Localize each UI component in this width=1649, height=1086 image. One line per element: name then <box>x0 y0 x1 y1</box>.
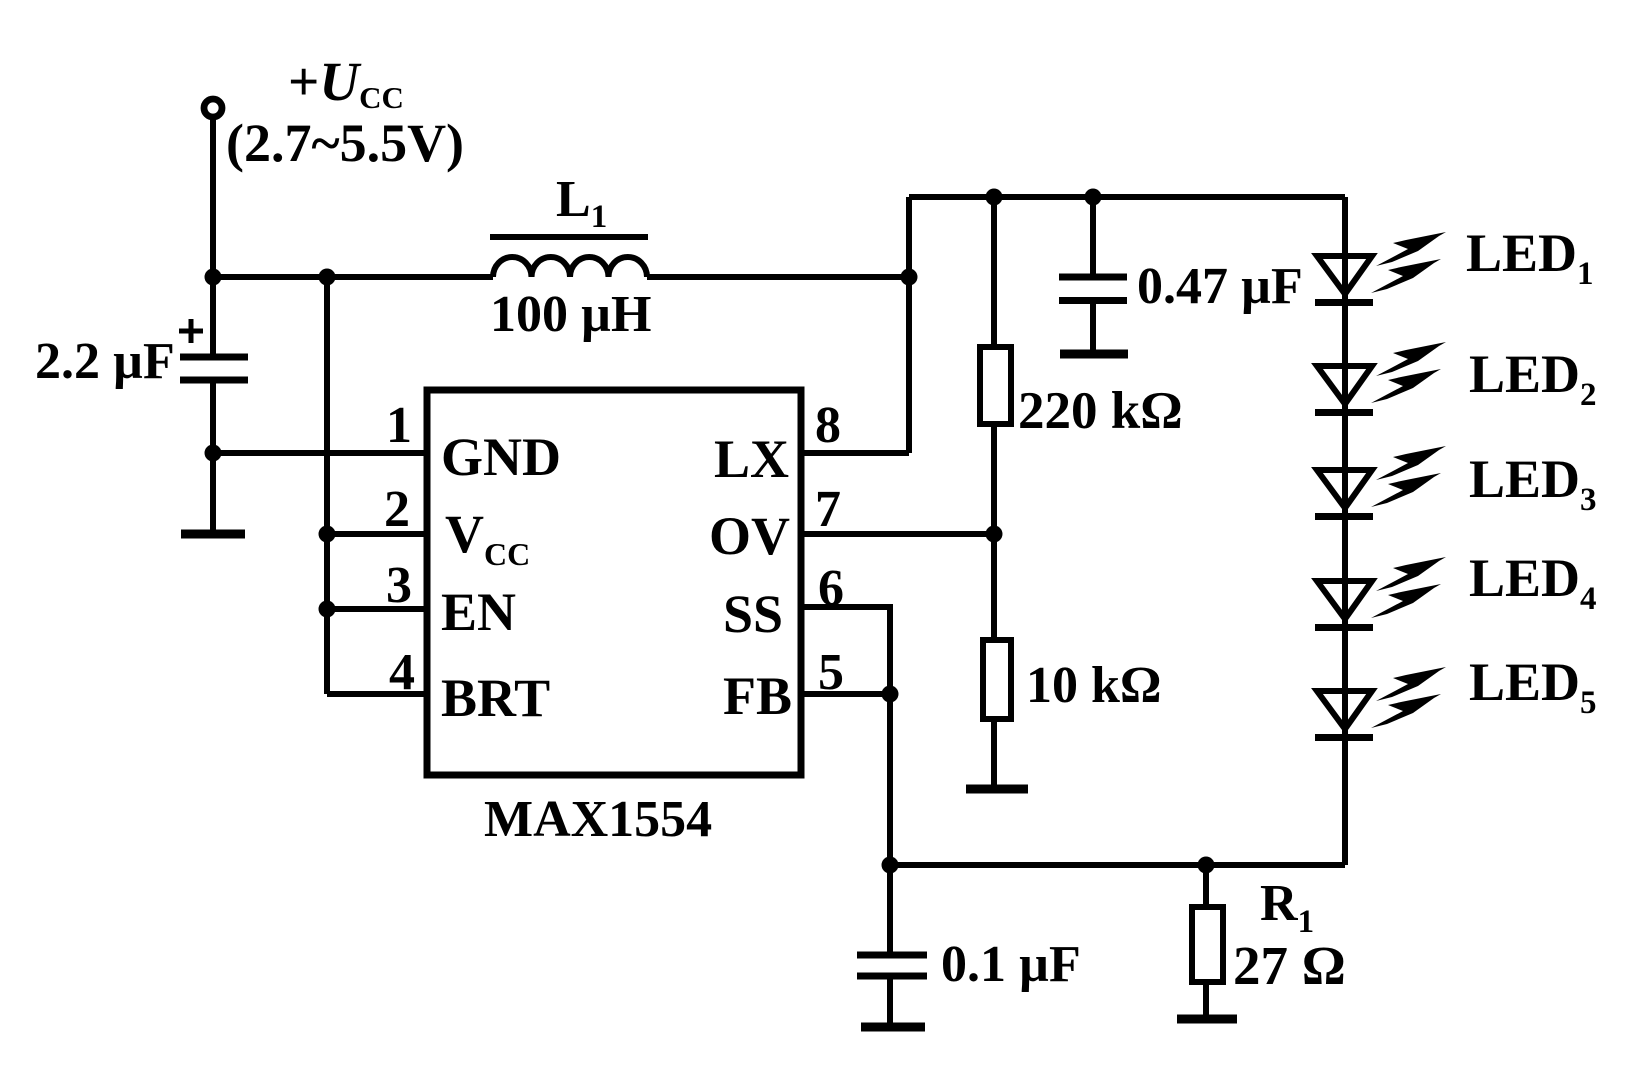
op-amp U1 MAX1554 box <box>427 390 801 775</box>
svg-text:220 kΩ: 220 kΩ <box>1018 382 1183 440</box>
svg-text:LED2: LED2 <box>1469 344 1597 413</box>
wire 220k bottom lead <box>991 424 997 534</box>
wire 220k top lead <box>991 197 997 345</box>
ground under 0.1uF <box>861 1023 925 1032</box>
inductor L1 <box>493 257 647 277</box>
svg-text:LED4: LED4 <box>1469 548 1597 617</box>
svg-text:4: 4 <box>389 644 415 701</box>
capacitor C 2.2uF plus sign <box>179 319 203 343</box>
svg-text:SS: SS <box>723 584 783 644</box>
node pin3 <box>319 601 336 618</box>
svg-text:2.2 µF: 2.2 µF <box>35 333 175 390</box>
wire cap 0.47 to ground <box>1090 300 1096 354</box>
resistor R1 27ohm <box>1192 907 1223 982</box>
ground under cap <box>181 530 245 539</box>
resistor 220k <box>980 347 1011 424</box>
node 220k top <box>986 189 1003 206</box>
capacitor 0.47uF <box>1059 277 1127 301</box>
capacitor 0.1uF <box>857 955 927 976</box>
svg-text:10 kΩ: 10 kΩ <box>1026 657 1162 714</box>
wire bottom rail <box>890 862 1345 868</box>
node L1 to riser <box>901 269 918 286</box>
svg-text:BRT: BRT <box>441 668 550 728</box>
LED4 <box>1315 557 1446 628</box>
svg-text:LED3: LED3 <box>1469 449 1597 518</box>
wire FB down <box>887 694 893 865</box>
svg-text:LX: LX <box>714 429 789 489</box>
resistor 10k <box>983 640 1011 719</box>
wire LED column <box>1342 197 1348 865</box>
node pin2 <box>319 526 336 543</box>
ground under R1 <box>1177 1015 1237 1024</box>
node cap 0.47 top <box>1085 189 1102 206</box>
wire 0.1uF to ground <box>887 976 893 1027</box>
wire R1 top lead <box>1203 865 1209 907</box>
node gnd branch <box>205 445 222 462</box>
wire LX stub <box>801 450 909 456</box>
svg-text:100 µH: 100 µH <box>490 286 651 343</box>
wire inductor to LX riser <box>647 274 909 280</box>
wire 10k bottom lead <box>991 719 997 789</box>
svg-text:0.47 µF: 0.47 µF <box>1137 258 1303 315</box>
wire vcc branch vertical <box>324 277 330 694</box>
wire OV pin7 <box>801 531 994 537</box>
wire cap 0.47 lead <box>1090 197 1096 277</box>
wire pin2 <box>327 531 427 537</box>
svg-text:0.1 µF: 0.1 µF <box>941 936 1081 993</box>
svg-text:FB: FB <box>723 666 792 726</box>
svg-text:3: 3 <box>386 557 412 614</box>
svg-text:2: 2 <box>384 481 410 538</box>
svg-text:27 Ω: 27 Ω <box>1233 935 1346 996</box>
LED3 <box>1315 446 1446 517</box>
terminal +Ucc <box>204 99 222 117</box>
wire terminal to cap <box>210 116 216 357</box>
svg-text:LED5: LED5 <box>1469 652 1597 721</box>
capacitor 2.2uF <box>180 357 248 380</box>
svg-text:7: 7 <box>815 481 841 538</box>
LED5 <box>1315 667 1446 738</box>
LED2 <box>1315 342 1446 413</box>
wire LX riser <box>906 197 912 453</box>
wire input rail left <box>213 274 493 280</box>
svg-text:MAX1554: MAX1554 <box>484 791 712 848</box>
svg-text:GND: GND <box>441 427 561 487</box>
wire GND pin1 <box>213 450 427 456</box>
wire SS pin6 <box>801 607 890 694</box>
wire 10k top lead <box>991 534 997 638</box>
ground under 10k <box>966 785 1028 794</box>
wire FB pin5 <box>801 691 890 697</box>
svg-text:1: 1 <box>386 397 412 454</box>
svg-text:8: 8 <box>815 397 841 454</box>
svg-text:(2.7~5.5V): (2.7~5.5V) <box>226 113 464 173</box>
wire pin4 <box>327 691 427 697</box>
inductor L1 overline <box>490 234 648 240</box>
wire R1 bottom lead <box>1203 982 1209 1019</box>
ground under 0.47 <box>1060 350 1128 359</box>
node 0.1uF <box>882 857 899 874</box>
node FB <box>882 686 899 703</box>
node R1 top <box>1198 857 1215 874</box>
svg-text:OV: OV <box>709 506 790 566</box>
wire cap to ground <box>210 380 216 534</box>
svg-text:EN: EN <box>441 582 516 642</box>
node vcc branch <box>319 269 336 286</box>
node input junction <box>205 269 222 286</box>
wire pin3 <box>327 606 427 612</box>
svg-text:LED1: LED1 <box>1466 223 1594 292</box>
node OV divider <box>986 526 1003 543</box>
LED1 <box>1315 232 1446 303</box>
wire top rail <box>909 194 1345 200</box>
wire 0.1uF lead <box>887 865 893 955</box>
